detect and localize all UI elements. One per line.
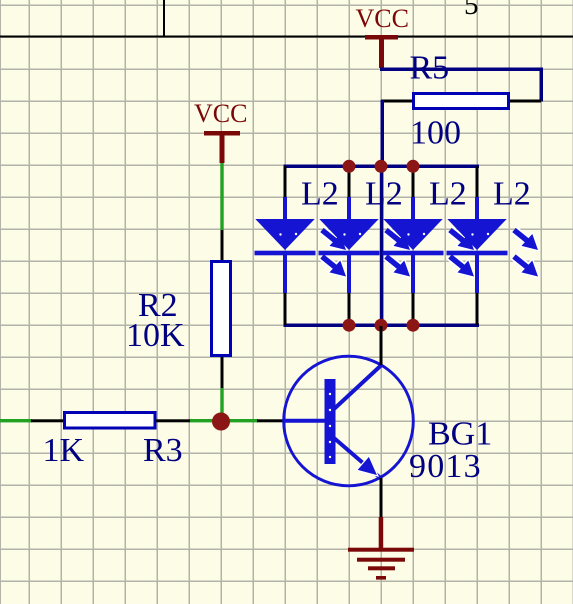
resistor R2 body xyxy=(212,262,231,356)
power symbol VCC (top) xyxy=(356,4,409,68)
svg-text:10K: 10K xyxy=(126,317,185,354)
transistor BG1 xyxy=(284,356,414,486)
wire VCC down to R2 (green) xyxy=(220,163,223,230)
svg-text:L2: L2 xyxy=(493,175,531,212)
svg-text:9013: 9013 xyxy=(409,448,482,485)
junction dot node base xyxy=(212,413,230,431)
junction dot bottom bus left xyxy=(343,319,356,332)
resistor R5 pin left xyxy=(381,100,413,103)
svg-text:VCC: VCC xyxy=(194,99,247,128)
svg-text:1K: 1K xyxy=(43,432,85,469)
resistor R3 pin left xyxy=(31,419,63,422)
svg-text:R5: R5 xyxy=(410,50,450,87)
junction dot bottom bus center xyxy=(375,319,388,332)
LED L2 (4th) xyxy=(447,166,539,325)
wire center column through LED array to collector xyxy=(380,166,384,327)
wire R2 to junction (green) xyxy=(220,388,223,421)
sheet border horizontal line xyxy=(0,36,573,38)
transistor collector pin xyxy=(380,326,383,365)
svg-text:100: 100 xyxy=(410,115,461,152)
LED L2 (2nd) xyxy=(319,166,411,325)
svg-text:L2: L2 xyxy=(429,175,467,212)
ground symbol xyxy=(348,517,414,580)
resistor R5 body xyxy=(414,94,509,109)
wire VCC to right xyxy=(380,68,543,72)
LED L2 (3rd) xyxy=(383,166,475,325)
LED L2 (1st) xyxy=(255,166,347,325)
junction dot top bus right xyxy=(407,160,420,173)
power symbol VCC (left) xyxy=(194,99,247,163)
svg-text:L2: L2 xyxy=(365,175,403,212)
resistor R5 pin right xyxy=(510,100,541,103)
svg-text:5: 5 xyxy=(464,0,479,21)
wire down right side xyxy=(540,68,544,102)
wire bottom LED bus xyxy=(284,324,480,328)
resistor R3 body xyxy=(65,413,156,429)
transistor BG1 base pin xyxy=(257,419,285,422)
wire left edge to R3 (green) xyxy=(0,419,32,422)
svg-text:BG1: BG1 xyxy=(428,416,492,453)
sheet border vertical line xyxy=(163,0,165,36)
resistor R2 pin top xyxy=(221,230,224,261)
junction dot top bus left xyxy=(343,160,356,173)
junction dot bottom bus right xyxy=(407,319,420,332)
resistor R2 pin bottom xyxy=(221,357,224,388)
transistor emitter pin xyxy=(380,478,383,517)
resistor R3 pin right xyxy=(156,419,190,422)
svg-text:VCC: VCC xyxy=(356,4,409,33)
wire R5 down to LED bus xyxy=(381,100,385,167)
svg-text:R3: R3 xyxy=(143,432,183,469)
svg-text:L2: L2 xyxy=(301,175,339,212)
wire top LED bus xyxy=(284,165,480,169)
junction dot top bus center xyxy=(375,160,388,173)
wire R3 to junction (green) xyxy=(190,419,258,422)
